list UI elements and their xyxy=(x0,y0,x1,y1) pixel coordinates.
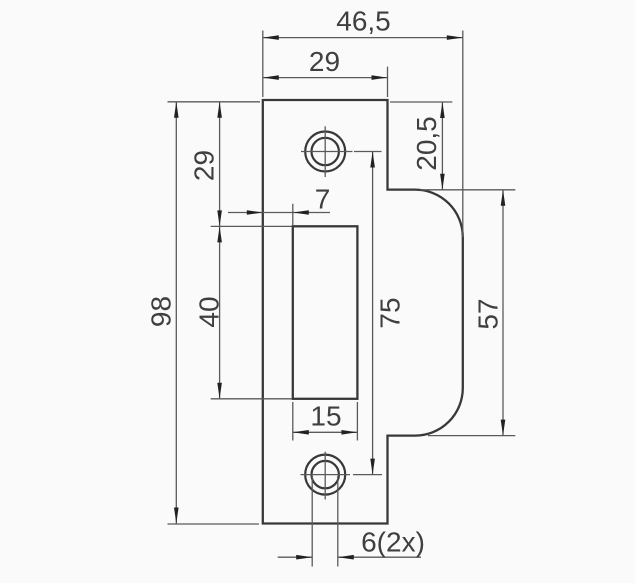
dimension 29 top width xyxy=(263,67,388,97)
dimension 29 left (top edge to cutout) xyxy=(211,102,292,399)
svg-text:20,5: 20,5 xyxy=(411,116,442,171)
dimension 20,5 step offset xyxy=(390,102,452,190)
svg-text:6(2x): 6(2x) xyxy=(361,527,425,558)
svg-text:29: 29 xyxy=(189,150,220,181)
dimension 75 hole spacing xyxy=(353,152,382,475)
dimension 46,5 overall width xyxy=(263,31,463,238)
latch cutout rectangle xyxy=(293,226,358,398)
dimension 15 cutout width xyxy=(293,402,358,441)
svg-text:7: 7 xyxy=(315,184,331,215)
screw hole bottom xyxy=(305,455,345,495)
svg-text:98: 98 xyxy=(145,296,176,327)
svg-text:15: 15 xyxy=(310,401,341,432)
svg-text:57: 57 xyxy=(473,298,504,329)
screw hole top xyxy=(305,132,345,172)
dimension 98 overall height xyxy=(168,102,261,524)
svg-text:40: 40 xyxy=(194,296,225,327)
dimension 40 cutout height xyxy=(217,226,222,398)
centerlines hole top xyxy=(301,126,353,177)
svg-text:46,5: 46,5 xyxy=(336,6,391,37)
plate outline xyxy=(263,100,463,524)
dimension 7 cutout offset xyxy=(228,204,330,226)
dimension 57 lip height xyxy=(420,190,515,436)
dimension 6(2x) hole diameter xyxy=(278,476,421,567)
centerlines hole bottom xyxy=(301,452,351,500)
svg-text:75: 75 xyxy=(375,297,406,328)
svg-text:29: 29 xyxy=(309,46,340,77)
